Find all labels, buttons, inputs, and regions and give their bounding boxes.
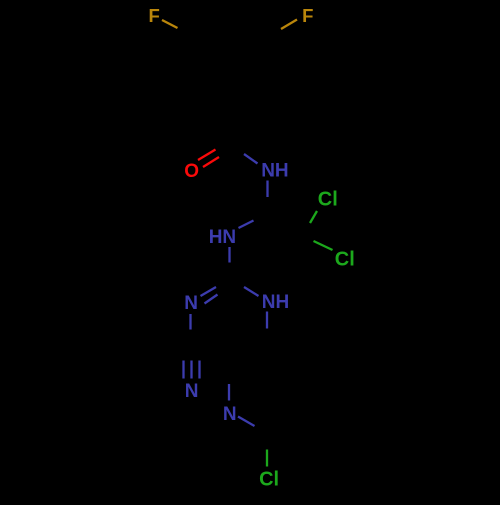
bond Cl1-C half (green)	[310, 211, 317, 223]
bond HN-Cguanidine half (blue, vertical)	[228, 247, 230, 263]
svg-text:N: N	[223, 404, 237, 425]
bond HN-CH half (blue, up-right)	[239, 221, 254, 229]
svg-text:F: F	[302, 5, 313, 26]
svg-text:F: F	[149, 5, 160, 26]
bond C=O upper line (red)	[198, 150, 216, 161]
svg-text:NH: NH	[261, 161, 288, 182]
bond Cl2-C half (green)	[314, 241, 333, 250]
svg-text:N: N	[184, 293, 198, 314]
svg-text:O: O	[184, 161, 199, 182]
svg-text:Cl: Cl	[335, 248, 355, 270]
bond N(bottom)-CH2 half (blue, down-right)	[238, 417, 255, 427]
bond C-N(bottom) half (blue, vertical)	[228, 384, 230, 401]
bond N-C(cyanamide) half (blue, vertical)	[189, 314, 191, 330]
bond C#N triple line center (blue)	[190, 361, 192, 379]
bond C(O)-NH half (blue)	[244, 154, 258, 164]
svg-text:Cl: Cl	[259, 468, 279, 490]
svg-text:N: N	[185, 381, 199, 402]
bond C=N inner line half (blue)	[205, 295, 218, 304]
bond C#N triple line left (blue)	[182, 361, 184, 379]
bond F1-C half (gold)	[162, 20, 178, 28]
svg-text:NH: NH	[262, 292, 289, 313]
bond F2-C half (gold)	[281, 20, 297, 30]
bond C-Cl(bottom) half (green, vertical)	[266, 450, 268, 467]
bond C=O lower line (red)	[203, 157, 219, 167]
bond NH-CH half (blue, vertical)	[266, 181, 268, 198]
svg-text:Cl: Cl	[318, 188, 338, 210]
svg-text:HN: HN	[209, 227, 236, 248]
bond NH(right)-CH2 half (blue, vertical)	[266, 312, 268, 329]
bond C=N main line half (blue)	[201, 287, 217, 296]
bond C#N triple line right (blue)	[198, 361, 200, 379]
bond C-NH(right) half (blue)	[244, 287, 259, 296]
